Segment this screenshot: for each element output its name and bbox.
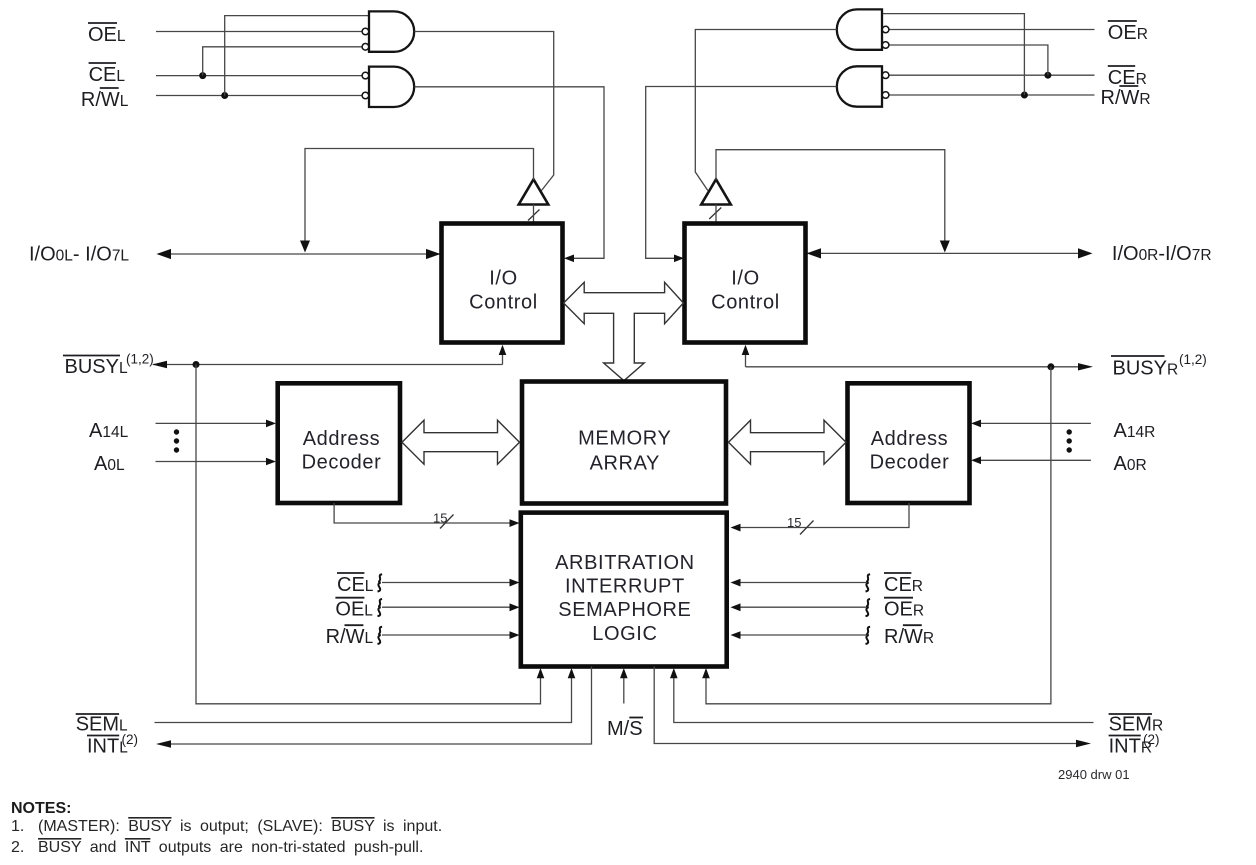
svg-text:CER: CER: [884, 574, 923, 596]
arrowhead BUSY-R up into box: [742, 345, 750, 355]
svg-text:Control: Control: [711, 292, 780, 314]
arrowhead A14L into decoder: [266, 420, 276, 428]
arrowhead M/S into arbitration: [620, 668, 628, 678]
block Memory Array: [522, 382, 726, 504]
svg-text:LOGIC: LOGIC: [592, 623, 657, 645]
slash 15-bus left: [440, 515, 454, 529]
svg-text:ARBITRATION: ARBITRATION: [555, 552, 695, 574]
svg-text:BUSY and INT outputs are non-t: BUSY and INT outputs are non-tri-stated …: [38, 839, 423, 856]
wire BUSY-R up into I/O Control R: [745, 354, 747, 367]
wire CE-L branch to gate G1: [203, 47, 362, 76]
label BUSY-L (1,2): [63, 352, 154, 378]
wire R/W-L into arbitration: [382, 634, 512, 636]
wire BUSY-R to arbitration logic: [706, 367, 1051, 704]
wire BUSY-R: [746, 366, 1087, 368]
svg-text:(2): (2): [122, 732, 139, 747]
arrowhead I/O bus L into box: [426, 249, 441, 259]
label R/W-R arb: [884, 625, 934, 648]
arrowhead into I/O Control R left edge: [674, 255, 684, 263]
svg-text:BUSYL: BUSYL: [65, 356, 128, 378]
arrowhead SEM-L into arbitration: [568, 668, 576, 678]
wire G1 output to buffer BUF-L enable: [414, 32, 553, 191]
arrowhead down onto I/O bus R: [940, 241, 950, 253]
svg-text:2940 drw 01: 2940 drw 01: [1058, 767, 1130, 782]
and-gate G1: [369, 11, 414, 51]
svg-text:INTERRUPT: INTERRUPT: [565, 576, 685, 598]
wire R/W-R branch to gate G3 top input: [882, 14, 1024, 95]
bus arrow decoder-L to memory: [402, 420, 520, 464]
wire SEM-R: [674, 677, 1094, 723]
junction dot R/W-R branch: [1021, 92, 1028, 99]
label OE-R: [1108, 21, 1148, 44]
inverting bubble G3 pin OE: [882, 26, 889, 33]
arrowhead 15-bus right into arbitration: [731, 524, 741, 532]
inverting bubble G3 pin CE: [882, 42, 889, 49]
bus arrow memory to decoder-R: [729, 420, 847, 464]
arrowhead down onto I/O bus L: [300, 241, 310, 253]
inverting bubble G4 pin R/W: [882, 92, 889, 99]
wire OE-R into arbitration: [737, 606, 866, 608]
svg-text:(1,2): (1,2): [126, 352, 154, 367]
junction dot BUSY-R: [1047, 363, 1054, 370]
svg-text:I/O0R-I/O7R: I/O0R-I/O7R: [1112, 243, 1212, 265]
wire CE-L into arbitration: [382, 582, 512, 584]
wire CE-R to gate G4: [889, 74, 1095, 76]
squiggle R/W-R: [866, 627, 871, 644]
middle: [278, 224, 970, 667]
block Address Decoder left: [278, 383, 400, 503]
svg-text:(1,2): (1,2): [1179, 352, 1207, 367]
label OE-L arb: [335, 598, 373, 621]
label A14R: [1114, 420, 1156, 442]
label R/W-L: [81, 88, 129, 111]
svg-text:MEMORY: MEMORY: [578, 428, 671, 450]
label INT-L (2): [87, 732, 138, 758]
wires-right-top: [646, 9, 1212, 703]
arrowhead BUSY-L into arbitration: [537, 668, 545, 678]
wire R/W-R into arbitration: [737, 634, 866, 636]
inverting bubble G2 pin R/W: [362, 92, 369, 99]
tri-state buffer BUF-R: [701, 179, 731, 204]
notes: [11, 800, 442, 856]
svg-text:ARRAY: ARRAY: [590, 453, 660, 475]
arrowhead BUSY-R right: [1078, 363, 1093, 370]
wire INT-L: [160, 667, 592, 745]
svg-text:OEL: OEL: [335, 599, 373, 621]
svg-text:15: 15: [433, 511, 447, 526]
label SEM-R: [1109, 714, 1164, 736]
wire R/W-L branch to gate G1 top input: [225, 16, 369, 96]
squiggle CE-R: [866, 574, 871, 591]
junction dot CE-L branch: [199, 72, 206, 79]
svg-text:I/O0L- I/O7L: I/O0L- I/O7L: [29, 244, 129, 266]
svg-text:Address: Address: [871, 428, 949, 450]
svg-text:Control: Control: [469, 292, 538, 314]
label CE-L: [89, 63, 126, 86]
arrowhead A14R into decoder: [971, 420, 981, 428]
arrowhead BUSY-L left: [152, 361, 167, 368]
wire OE-L into arbitration: [382, 606, 512, 608]
label A0L: [94, 453, 125, 475]
svg-text:SEML: SEML: [76, 714, 128, 736]
label M/S: [607, 718, 643, 741]
svg-text:R/WL: R/WL: [81, 89, 129, 111]
arrowhead R/W-L into arbitration: [510, 631, 520, 639]
wire BUSY-L up into I/O Control L: [502, 354, 504, 365]
arrowhead into I/O Control L right edge: [564, 255, 574, 263]
tri-state buffer BUF-L: [519, 179, 549, 204]
label A0R: [1114, 453, 1147, 475]
label A14L: [89, 420, 129, 442]
svg-text:A14R: A14R: [1114, 420, 1156, 442]
arrowhead I/O bus L left: [157, 249, 172, 259]
svg-text:CEL: CEL: [89, 64, 126, 86]
arrowhead INT-R output right: [1076, 740, 1091, 747]
inverting bubble G2 pin CE: [362, 72, 369, 79]
wire BUSY-L to arbitration logic: [196, 365, 541, 704]
wire CE-R into arbitration: [737, 582, 866, 584]
wire CE-L to gate G2: [156, 75, 362, 77]
arrowhead CE-R into arbitration: [731, 579, 741, 587]
wire BUF-R to I/O Control top: [715, 205, 717, 224]
arrowhead CE-L into arbitration: [510, 579, 520, 587]
svg-text:I/O: I/O: [731, 268, 759, 290]
svg-text:A0L: A0L: [94, 453, 125, 475]
svg-text:SEMAPHORE: SEMAPHORE: [558, 599, 691, 621]
arrowhead OE-R into arbitration: [731, 603, 741, 611]
and-gate G2: [369, 67, 414, 107]
wire BUF-L output to I/O bus L: [305, 149, 534, 246]
arrowhead I/O bus R into box: [807, 248, 822, 258]
svg-text:R/WR: R/WR: [884, 626, 934, 648]
svg-text:OER: OER: [884, 599, 924, 621]
wire A14L: [156, 422, 269, 424]
arrowhead R/W-R into arbitration: [731, 631, 741, 639]
junction dot R/W-L branch: [221, 92, 228, 99]
inverting bubble G1 pin CE: [362, 44, 369, 51]
wire 15-bus left from decoder-L to arbitration: [334, 503, 512, 523]
wire BUSY-L: [153, 364, 503, 366]
label R/W-L arb: [326, 625, 374, 648]
label R/W-R: [1101, 86, 1151, 109]
wire A14R: [979, 422, 1091, 424]
arrowhead OE-L into arbitration: [510, 603, 520, 611]
block I/O Control left: [442, 224, 563, 343]
and-gate G3: [837, 9, 882, 49]
inverting bubble G1 pin OE: [362, 28, 369, 35]
arrowhead INT-L output left: [156, 740, 171, 747]
svg-text:BUSYR: BUSYR: [1113, 357, 1179, 379]
junction dot BUSY-L: [193, 361, 200, 368]
arrowhead 15-bus left into arbitration: [510, 519, 520, 527]
squiggle CE-L: [378, 574, 383, 591]
bottom: [76, 667, 1163, 783]
and-gate G4: [837, 66, 882, 106]
svg-text:OER: OER: [1108, 22, 1148, 44]
label CE-R: [1108, 66, 1147, 89]
wire BUF-R output to I/O bus R: [716, 150, 945, 245]
inverting bubble G4 pin CE: [882, 72, 889, 79]
ellipsis dots A-L: [174, 429, 179, 452]
wire M/S into arbitration: [623, 677, 625, 704]
wires-left-top: [29, 11, 604, 703]
wire R/W-L to gate G2: [156, 95, 362, 97]
wire CE-R branch to gate G3: [889, 45, 1048, 75]
arrowhead A0R into decoder: [971, 457, 981, 465]
wire OE-R to gate G3: [889, 29, 1095, 31]
I/O bus line R: [807, 252, 1086, 254]
wire INT-R: [654, 667, 1087, 744]
label 15 left: [433, 511, 447, 526]
label 15 right: [787, 515, 801, 530]
wire 15-bus right from decoder-R to arbitration: [738, 503, 909, 528]
wire A0L: [156, 461, 269, 463]
wire G2 output to I/O Control L write-enable: [414, 87, 604, 258]
block I/O Control right: [685, 224, 806, 343]
svg-text:R/WL: R/WL: [326, 626, 374, 648]
svg-text:A14L: A14L: [89, 420, 129, 442]
bus arrow T between I/O controls and memory array: [564, 282, 684, 380]
wire R/W-R to gate G4: [889, 94, 1095, 96]
arrowhead SEM-R into arbitration: [670, 668, 678, 678]
svg-text:2.: 2.: [11, 839, 24, 856]
svg-text:NOTES:: NOTES:: [11, 800, 71, 817]
arrowhead A0L into decoder: [266, 458, 276, 466]
squiggle OE-L: [378, 599, 383, 616]
label CE-R arb: [884, 573, 923, 596]
label OE-R arb: [884, 598, 924, 621]
block Arbitration Interrupt Semaphore Logic: [521, 513, 727, 667]
svg-text:1.: 1.: [11, 818, 24, 835]
label CE-L arb: [337, 573, 374, 596]
svg-text:R/WR: R/WR: [1101, 87, 1151, 109]
label OE-L: [88, 23, 126, 46]
label BUSY-R (1,2): [1111, 352, 1207, 379]
svg-text:Decoder: Decoder: [302, 452, 382, 474]
label SEM-L: [76, 714, 128, 736]
squiggle R/W-L: [378, 627, 383, 644]
svg-text:CEL: CEL: [337, 574, 374, 596]
svg-text:15: 15: [787, 515, 801, 530]
svg-text:A0R: A0R: [1114, 453, 1147, 475]
arrowhead I/O bus R right: [1078, 248, 1093, 258]
junction dot CE-R branch: [1044, 72, 1051, 79]
svg-text:I/O: I/O: [489, 268, 517, 290]
label 2940 drw 01: [1058, 767, 1130, 782]
squiggle OE-R: [866, 599, 871, 616]
I/O bus line L: [158, 253, 440, 255]
svg-text:M/S: M/S: [607, 718, 643, 740]
svg-text:Decoder: Decoder: [870, 452, 950, 474]
arrowhead BUSY-R into arbitration: [702, 668, 710, 678]
label INT-R (2): [1109, 732, 1160, 758]
slash bus mark below BUF-R: [709, 208, 721, 220]
slash 15-bus right: [800, 521, 814, 535]
label I/O0R-I/O7R: [1112, 243, 1212, 265]
wire G4 output to I/O Control R write-enable: [646, 87, 837, 259]
svg-text:OEL: OEL: [88, 24, 126, 46]
svg-text:(MASTER): BUSY is output; (SLA: (MASTER): BUSY is output; (SLAVE): BUSY …: [38, 818, 442, 835]
wire G3 output to buffer BUF-R enable: [695, 30, 836, 191]
ellipsis dots A-R: [1067, 429, 1072, 452]
svg-text:Address: Address: [303, 428, 381, 450]
block Address Decoder right: [848, 383, 970, 503]
wire BUF-L to I/O Control top: [533, 205, 535, 224]
slash bus mark below BUF-L: [528, 210, 540, 221]
wire SEM-L: [155, 677, 572, 723]
svg-text:(2): (2): [1143, 732, 1160, 747]
wire A0R: [979, 459, 1091, 461]
wire OE-L to gate G1: [156, 31, 362, 33]
arrowhead BUSY-L up into box: [499, 345, 507, 355]
label I/O0L- I/O7L: [29, 244, 129, 266]
